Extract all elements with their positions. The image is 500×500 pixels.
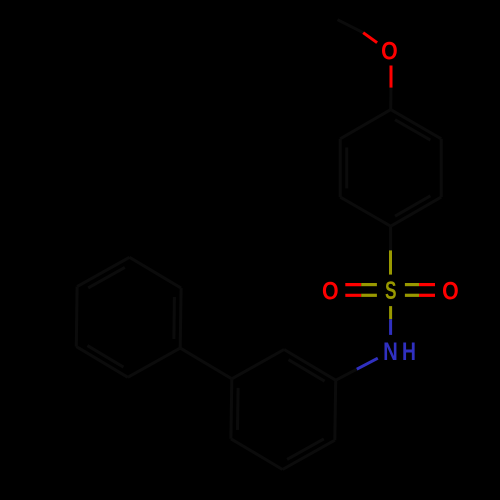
wire methyl C-O bond, O half (red): [363, 33, 377, 43]
wire phenyl ring2 edge 1: [333, 380, 337, 440]
wire O-ring1 bond carbon half: [389, 88, 392, 110]
wire phenyl ring2 edge 3: [231, 439, 283, 470]
wire ring3 aromatic inner line: [87, 346, 123, 368]
wire ring2-ring3 biaryl bond: [180, 348, 232, 379]
wire benzene ring1 edge 3: [391, 197, 442, 226]
wire ring1-S bond carbon half: [389, 226, 392, 250]
wire phenyl ring2 edge 2: [283, 440, 335, 469]
wire S1=O3 double bond upper line (olive + red halves): [405, 283, 419, 286]
wire S1=O2 double bond lower line (red + olive halves): [345, 294, 361, 297]
wire benzene ring1 edge 4: [340, 197, 391, 226]
svg-text:N: N: [383, 337, 398, 366]
wire ring1 aromatic inner line: [395, 196, 430, 216]
wire ring2 aromatic inner line: [287, 439, 324, 460]
wire phenyl ring3 edge 4: [77, 257, 129, 286]
wire ring3 aromatic inner line: [88, 267, 125, 288]
wire phenyl ring3 edge 5: [130, 257, 182, 288]
wire S1=O3 double bond lower line (olive + red halves): [405, 294, 419, 297]
wire ring1-S bond, S half (olive): [389, 250, 392, 274]
wire O-CH3 bond carbon half: [338, 20, 364, 33]
wire S1=O2 double bond upper line (red + olive halves): [345, 283, 361, 286]
wire phenyl ring3 edge 2: [76, 347, 128, 378]
wire S1-N1 bond, S half (olive): [389, 306, 392, 319]
svg-text:H: H: [402, 337, 416, 365]
svg-text:O: O: [442, 277, 459, 305]
wire O1-ring1 bond, O half (red): [390, 66, 393, 88]
wire N1-ring2 bond, N half (blue): [357, 358, 378, 369]
wire benzene ring1 edge 2: [440, 139, 443, 197]
wire phenyl ring3 edge 1: [128, 348, 180, 377]
wire ring2 aromatic inner line: [236, 388, 240, 430]
wire phenyl ring2 edge 5: [232, 350, 284, 379]
svg-text:O: O: [322, 277, 339, 305]
wire phenyl ring3 edge 6: [179, 288, 183, 348]
wire benzene ring1 edge 6: [340, 110, 391, 139]
wire S1-N1 bond, N half (blue): [389, 319, 392, 335]
wire phenyl ring2 edge 4: [229, 379, 233, 439]
wire ring1 aromatic inner line: [395, 120, 430, 140]
svg-text:O: O: [381, 37, 398, 65]
wire phenyl ring3 edge 3: [75, 287, 79, 347]
wire benzene ring1 edge 1: [391, 110, 442, 139]
wire N-ring2 bond carbon half: [336, 369, 357, 380]
wire phenyl ring2 edge 6: [284, 350, 336, 381]
wire ring1 aromatic inner line: [345, 148, 348, 189]
wire benzene ring1 edge 5: [339, 139, 342, 197]
wire ring3 aromatic inner line: [172, 297, 176, 339]
svg-text:S: S: [385, 276, 397, 305]
wire ring2 aromatic inner line: [289, 360, 325, 382]
